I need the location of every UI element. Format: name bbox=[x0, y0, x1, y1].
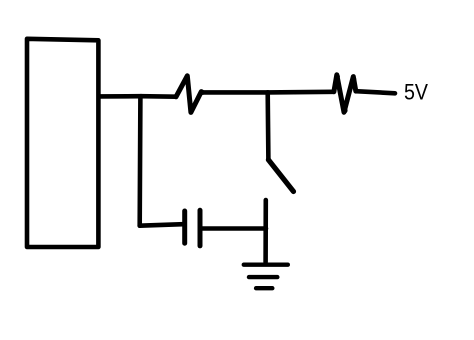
squiggle peak blobs (pen pressure) bbox=[186, 74, 357, 114]
switch S1: lever (open) bbox=[268, 160, 293, 192]
svg-text:5V: 5V bbox=[404, 80, 428, 105]
wire: node A to resistor R1 bbox=[141, 94, 176, 99]
wire: node A down leg bbox=[137, 96, 142, 225]
wire: node B to resistor R2 bbox=[268, 90, 334, 95]
switch S1: fixed contact stub to ground node C bbox=[263, 200, 268, 262]
IC box U1 bbox=[27, 39, 98, 247]
capacitor C1 left plate bbox=[182, 211, 187, 243]
wire: R1 to node B bbox=[203, 90, 268, 95]
capacitor C1 right plate bbox=[198, 210, 203, 246]
wire: bottom leg to capacitor C1 bbox=[140, 224, 183, 226]
wire: R2 to 5V terminal bbox=[356, 91, 395, 93]
resistor R1 (hand-drawn squiggle) bbox=[176, 76, 203, 113]
switch S1: pole wire down from node B bbox=[265, 92, 270, 159]
ground symbol bbox=[244, 265, 288, 289]
wire: C1 to ground node C bbox=[200, 226, 266, 231]
resistor R2 (hand-drawn squiggle) bbox=[334, 75, 356, 113]
wire: U1 right pin to node A bbox=[100, 94, 142, 99]
